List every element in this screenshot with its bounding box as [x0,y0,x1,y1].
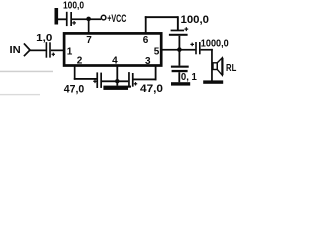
op-amp U1 (IC body) [64,33,161,65]
wire pin 2 down and right [74,66,97,80]
C2 plus sign [52,53,55,57]
svg-text:1,0: 1,0 [36,32,52,44]
svg-text:7: 7 [86,35,92,46]
svg-text:5: 5 [154,47,160,58]
svg-text:47,0: 47,0 [140,83,163,95]
speaker RL [213,58,222,75]
node junction dot (pin 4 ground node) [115,79,119,83]
wire C7 to ground [178,72,180,82]
wire input to C2 [30,50,46,52]
ground (center, under pin 4) [103,86,131,90]
svg-text:4: 4 [112,55,118,66]
C6 plus sign [134,82,137,85]
ground (under C7) [171,82,190,85]
capacitor C7 0,1 plates [171,66,189,73]
wire pin 4 down [116,66,118,86]
wire C1 to VCC terminal [72,18,101,20]
input chevron arrow [24,43,30,56]
wire node to C7 [179,51,181,66]
svg-text:100,0: 100,0 [181,14,210,26]
wire pin 5 to output node [161,49,195,51]
svg-text:1000,0: 1000,0 [201,39,229,50]
svg-text:1: 1 [67,47,73,58]
svg-text:RL: RL [226,63,236,74]
ground (top-left chassis bar) [55,8,59,25]
ground (below speaker) [203,80,223,83]
C4 plus sign [190,43,194,47]
svg-text:47,0: 47,0 [64,84,84,96]
wire pin 6 up and over to C3 [145,16,179,34]
svg-text:2: 2 [77,56,83,67]
wire C3 to output node [179,36,181,50]
capacitor C6 47,0 plates [128,72,133,87]
svg-text:6: 6 [143,35,149,46]
terminal circle +VCC [101,15,106,20]
svg-text:0, 1: 0, 1 [181,72,197,83]
capacitor C3 100,0 plates [169,30,188,36]
svg-text:IN: IN [10,45,21,56]
capacitor C5 47,0 plates [96,72,102,88]
svg-text:100,0: 100,0 [63,1,84,12]
wire pin 7 [88,19,90,34]
capacitor C2 1,0 plates [46,42,51,58]
wire C2 to pin 1 [51,50,65,52]
C1 plus sign [72,21,76,25]
capacitor C1 100,0 plates [66,12,72,26]
C3 plus sign [184,27,188,31]
capacitor C4 1000,0 plates [195,42,200,54]
C5 plus sign [93,80,97,84]
svg-text:3: 3 [145,56,151,67]
svg-text:+VCC: +VCC [107,13,126,25]
wire C4 to speaker [201,49,213,81]
wire pin 3 down and left to C6 [134,66,157,81]
wire ground to C1 [58,18,66,20]
wire C5 to ground node [102,80,128,82]
node junction dot (output node) [177,47,182,52]
node junction dot (VCC rail / pin 7) [86,17,91,22]
